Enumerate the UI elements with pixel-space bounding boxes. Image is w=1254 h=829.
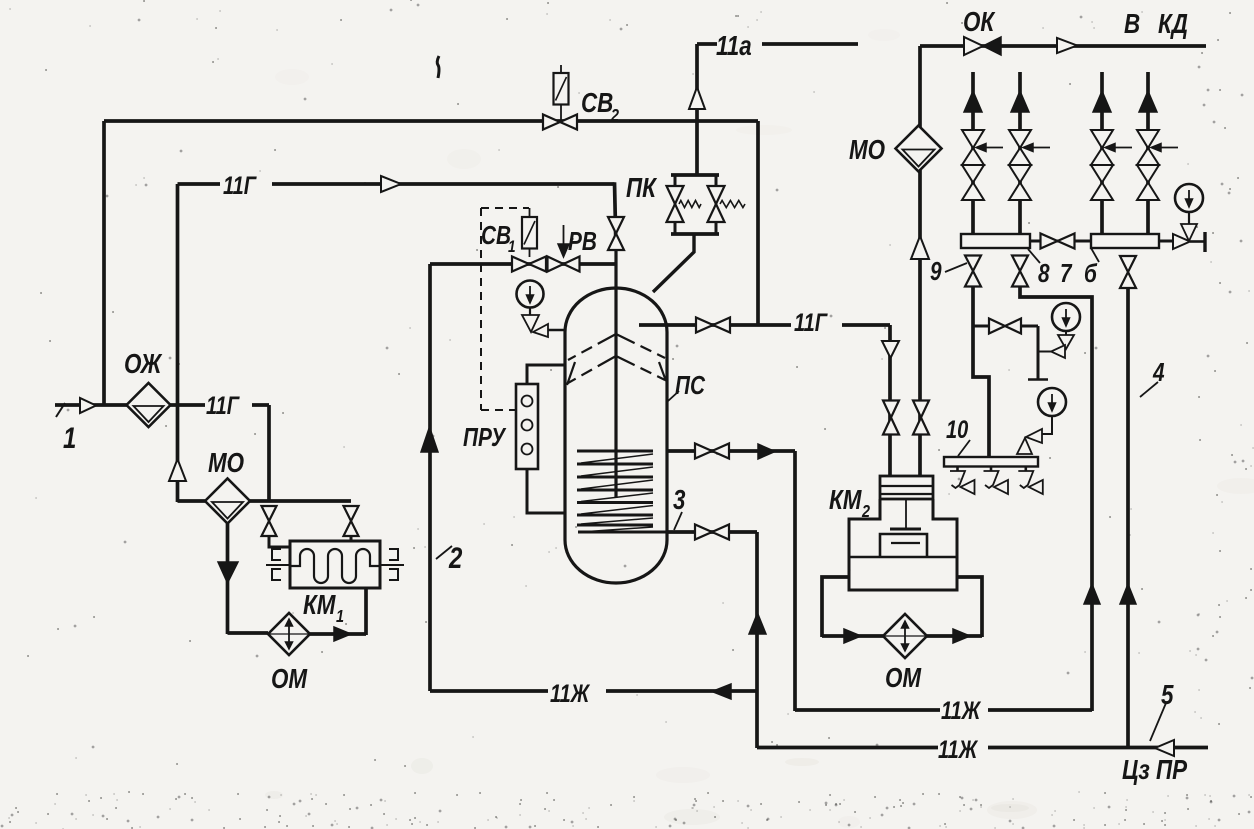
wire top header to SV2 [104, 119, 758, 123]
wire valve8 jog [1020, 286, 1092, 711]
label 4 tick [1140, 382, 1158, 397]
svg-text:11Г: 11Г [223, 172, 257, 200]
label PS [675, 371, 706, 400]
svg-text:МО: МО [208, 448, 244, 479]
gauge drain branch [1038, 303, 1080, 358]
label 6 tick [1091, 248, 1099, 262]
label 5 tick [1150, 703, 1166, 741]
wire OM loop right [310, 632, 366, 636]
wire 11g header [178, 182, 617, 250]
wire MO bottom drop [226, 523, 230, 634]
flow arrow up x920 [911, 236, 929, 259]
label 11zh lower [938, 736, 978, 764]
wire KM1 bottom drop [364, 588, 368, 635]
flow arrow OM2 in [844, 629, 861, 643]
gauge spray bar [1017, 388, 1066, 454]
label 10 [946, 416, 969, 444]
svg-text:11Ж: 11Ж [941, 697, 981, 725]
wire column x1102 [1100, 72, 1104, 234]
wire MO right riser [918, 46, 922, 477]
svg-text:11а: 11а [716, 31, 752, 62]
valve KM1 left [262, 506, 292, 547]
spray nozzle x1025 [1018, 466, 1043, 494]
compressor KM2 [849, 476, 957, 590]
gauge with vent nozzle [517, 281, 567, 338]
flow arrow up 11a [689, 87, 705, 109]
filter MO right [896, 126, 942, 172]
wire OK header [920, 44, 1206, 48]
safety valve unit PK [653, 175, 745, 292]
vessel PS shell [565, 288, 667, 583]
label OM left [271, 664, 308, 695]
flow arrow top x973 [964, 91, 982, 112]
label 11a [716, 31, 752, 62]
flow arrow top x1148 [1139, 91, 1157, 112]
wire KM2 loop right [957, 577, 982, 637]
manifold 6 [1091, 234, 1159, 248]
label PRU [463, 423, 507, 452]
valve KM2 left inlet [883, 401, 899, 435]
wire OM loop left [228, 631, 269, 635]
filter OZh [127, 383, 171, 427]
flow arrow top x1102 [1093, 91, 1111, 112]
wire 11g drop to KM2 [888, 325, 892, 477]
control valve x1020 [1009, 130, 1050, 200]
valve 7 [1041, 234, 1075, 249]
level regulator PRU [516, 365, 566, 513]
label 11g header [223, 172, 257, 200]
wire MO right to KM1 valves [250, 499, 351, 503]
flow arrow up x177 [169, 459, 186, 481]
wire riser 4 [1126, 288, 1130, 748]
svg-text:МО: МО [849, 135, 885, 166]
spray nozzle x991 [984, 466, 1009, 494]
svg-text:ОК: ОК [963, 7, 996, 38]
svg-text:ПРУ: ПРУ [463, 423, 507, 452]
valve 9 [965, 256, 981, 287]
flow arrow inlet [80, 398, 96, 413]
flow arrow up x757 [749, 613, 766, 634]
label MO right [849, 135, 885, 166]
valve coil inlet [695, 444, 729, 459]
wire column x973 [971, 72, 975, 234]
svg-text:11Г: 11Г [794, 309, 828, 337]
wire inlet 1 [55, 403, 127, 407]
svg-text:РВ: РВ [568, 227, 597, 256]
valve 11g mid [696, 318, 730, 333]
wire 11zh middle [795, 708, 1092, 712]
control valve x1148 [1137, 130, 1178, 200]
label Cz PR [1122, 755, 1187, 786]
inlet tick [56, 403, 65, 417]
flow arrow OM out [334, 627, 351, 641]
wire OZh to riser [170, 405, 269, 502]
label SV1 [481, 221, 516, 257]
label 11g mid [794, 309, 828, 337]
compressor KM1 [266, 541, 404, 588]
label 3 [673, 485, 685, 516]
wire SV1 line [430, 262, 616, 266]
wire coil inlet line [667, 451, 795, 711]
label OM right [885, 663, 922, 694]
label 6 [1084, 259, 1098, 288]
svg-text:2: 2 [861, 502, 870, 522]
svg-text:КД: КД [1158, 9, 1188, 40]
wire column x1148 [1146, 72, 1150, 234]
drain tee [1028, 378, 1048, 381]
wire valve9 down [973, 286, 989, 458]
spray nozzle x957 [950, 466, 975, 494]
wire SV2 branch riser [756, 121, 760, 325]
vessel dip tube [614, 250, 617, 498]
label 3 tick [674, 512, 682, 530]
label 10 tick [958, 440, 970, 456]
label MO left [208, 448, 244, 479]
svg-text:1: 1 [336, 607, 344, 627]
svg-text:ПК: ПК [626, 173, 658, 204]
label 4 [1152, 358, 1164, 387]
wire column x1020 [1018, 72, 1022, 234]
valve below manifold 6 [1120, 256, 1136, 288]
svg-text:2: 2 [610, 106, 619, 126]
label 1 [63, 420, 76, 454]
wire riser x177 [176, 184, 180, 502]
vessel coil [577, 451, 667, 532]
svg-text:ПС: ПС [675, 371, 706, 400]
label 11g left [206, 392, 240, 420]
wire KM2 loop left [822, 577, 849, 637]
label KM1 [303, 590, 344, 627]
flow arrow up riser2 [421, 427, 438, 452]
label 5 [1161, 680, 1174, 711]
svg-text:11Ж: 11Ж [550, 680, 590, 708]
flow arrow up x1092 [1084, 584, 1100, 604]
label OZh [124, 349, 163, 380]
wire riser 2 [428, 264, 432, 691]
label PK [626, 173, 658, 204]
svg-text:2: 2 [448, 540, 462, 574]
svg-text:9: 9 [930, 257, 942, 286]
svg-text:КМ: КМ [829, 485, 862, 516]
valve RV [548, 257, 580, 272]
control valve x973 [962, 130, 1003, 200]
oil filter OM right [883, 614, 927, 658]
flow arrow coil inlet [758, 444, 775, 459]
svg-text:ОМ: ОМ [271, 664, 308, 695]
svg-text:11Г: 11Г [206, 392, 240, 420]
solenoid valve SV2 [543, 65, 577, 130]
check valve OK [964, 37, 1001, 55]
wire 11zh upper [430, 689, 757, 693]
flow arrow 11g header [381, 176, 401, 192]
label RV [568, 227, 597, 256]
svg-text:1: 1 [508, 238, 516, 257]
svg-text:ОМ: ОМ [885, 663, 922, 694]
wire 11a header [697, 42, 858, 46]
solenoid valve SV1 [512, 208, 546, 272]
wire left riser [102, 121, 106, 406]
label KM2 [829, 485, 870, 522]
control valve x1102 [1091, 130, 1132, 200]
label 11zh middle [941, 697, 981, 725]
wire drain branch [973, 326, 1038, 379]
label V KD [1124, 9, 1188, 40]
demister chevrons [567, 334, 666, 385]
svg-text:ОЖ: ОЖ [124, 349, 163, 380]
wire MO left stub [178, 499, 206, 503]
label 2 [448, 540, 462, 574]
svg-text:10: 10 [946, 416, 969, 444]
label 8 tick [1028, 249, 1040, 263]
label 8 [1038, 259, 1050, 288]
spray bar 10 [944, 457, 1038, 467]
wire manifold link [1030, 240, 1091, 243]
svg-text:В: В [1124, 9, 1140, 40]
wire 11g mid [639, 323, 890, 327]
manifold 9-8 [961, 234, 1030, 248]
svg-text:7: 7 [1060, 259, 1072, 288]
wire coil outlet line [667, 532, 757, 748]
svg-text:1: 1 [63, 420, 76, 454]
manifold purge with gauge [1159, 184, 1205, 252]
flow arrow OK header [1057, 38, 1077, 53]
valve drain branch [989, 319, 1021, 334]
valve coil outlet [695, 525, 729, 540]
svg-text:б: б [1084, 259, 1098, 288]
wire 11a riser [695, 44, 699, 176]
valve KM1 right [344, 506, 359, 542]
flow arrow OM2 out [953, 629, 970, 643]
label 11zh upper [550, 680, 590, 708]
control link dashed [481, 208, 529, 410]
label 9 tick [945, 263, 967, 272]
valve 8 [1012, 256, 1028, 287]
svg-text:11Ж: 11Ж [938, 736, 978, 764]
flow arrow down MO [218, 562, 238, 583]
flow arrow 11zh upper [712, 684, 731, 699]
valve above vessel [608, 217, 624, 250]
flow arrow down x890 [882, 341, 899, 358]
label 2 tick [436, 546, 452, 559]
label SV2 [581, 88, 619, 126]
svg-text:Цз ПР: Цз ПР [1122, 755, 1187, 786]
flow arrow top x1020 [1011, 91, 1029, 112]
label 7 [1060, 259, 1072, 288]
svg-text:СВ: СВ [481, 221, 511, 250]
svg-text:4: 4 [1152, 358, 1164, 387]
svg-text:8: 8 [1038, 259, 1050, 288]
label 9 [930, 257, 942, 286]
svg-text:КМ: КМ [303, 590, 336, 621]
valve KM2 right inlet [913, 401, 929, 435]
label PS tick [668, 391, 679, 401]
arrow RV [558, 225, 569, 257]
wire KM2 loop bottom [822, 634, 982, 638]
filter MO left [205, 479, 250, 524]
wire 11zh lower [757, 746, 1208, 750]
flow arrow up x1128 [1120, 584, 1136, 604]
svg-text:3: 3 [673, 485, 685, 516]
oil filter OM left [268, 613, 310, 655]
label OK [963, 7, 996, 38]
svg-text:СВ: СВ [581, 88, 613, 119]
stray scan mark [437, 56, 439, 78]
flow arrow 11zh lower [1155, 740, 1174, 756]
svg-text:5: 5 [1161, 680, 1174, 711]
